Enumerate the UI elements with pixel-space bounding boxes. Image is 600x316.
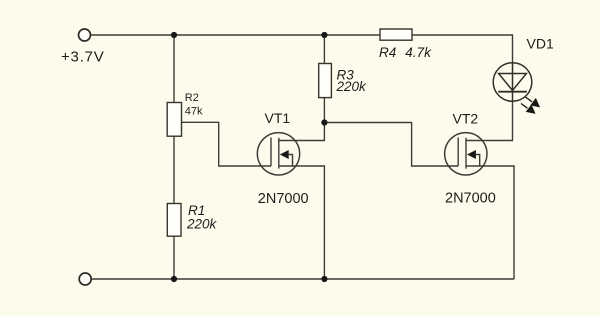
svg-text:VT1: VT1 [265,110,291,126]
VT1 body-source link [289,155,293,167]
svg-text:2N7000: 2N7000 [258,191,309,207]
wire R2 tap to VT1 gate [182,122,272,166]
svg-text:220k: 220k [336,79,368,94]
VT1 gate electrode [270,138,272,167]
svg-text:47k: 47k [185,106,203,118]
VT1 body circle [257,133,299,175]
wire R3 column top (rail to R3) [323,35,325,64]
VT2 gate electrode [457,138,459,167]
VD1 cathode bar [498,91,527,93]
transistor VT2 (2N7000 MOSFET) [445,133,487,175]
resistor R3 [319,64,332,98]
wire R1 to bottom rail [173,236,175,279]
wire LED to VT2 drain elbow [466,101,513,141]
wire R2 to R1 [173,136,175,203]
VT2 body arrow [467,150,476,159]
LED VD1 [493,63,532,102]
junction top rail / R2 [171,32,177,38]
wire left column top (rail to R2) [173,35,175,103]
junction top rail / R3 [321,32,327,38]
wire VT1 source to bottom rail [279,166,325,279]
VT1 body arrow [280,150,289,159]
junction bottom rail / R1 [171,276,177,282]
resistor R1 [167,204,181,237]
svg-text:VT2: VT2 [453,111,479,127]
wire VT2 source to bottom rail [466,166,514,279]
VT2 body-source link [476,155,480,167]
VT2 channel bar [465,138,467,169]
terminal +3.7V [79,29,91,41]
VT1 channel bar [278,138,280,169]
VD1 body circle [493,63,532,102]
svg-text:4.7k: 4.7k [405,45,432,60]
wire R3 to node A [323,98,325,123]
wire top rail left [91,34,380,36]
LED light arrow 2 [521,104,535,114]
wire top rail right [412,35,513,63]
VD1 lead through body [512,63,514,101]
node A junction [321,119,327,125]
svg-text:2N7000: 2N7000 [445,191,496,207]
svg-text:R2: R2 [185,92,199,104]
VT2 body circle [445,133,487,175]
transistor VT1 (2N7000 MOSFET) [257,133,299,175]
resistor R4 [380,29,412,40]
LED light arrow 1 [526,97,540,107]
svg-text:R4: R4 [379,45,396,60]
junction bottom rail / VT1 source [321,276,327,282]
VD1 anode triangle [499,74,527,91]
terminal bottom [79,273,91,285]
wire node A to VT1 drain [279,123,325,141]
svg-text:VD1: VD1 [527,36,554,52]
svg-text:220k: 220k [186,216,218,231]
wire bottom rail [92,278,514,280]
svg-text:+3.7V: +3.7V [61,49,105,66]
wire node A to VT2 gate [324,123,458,167]
resistor R2 [167,103,181,137]
